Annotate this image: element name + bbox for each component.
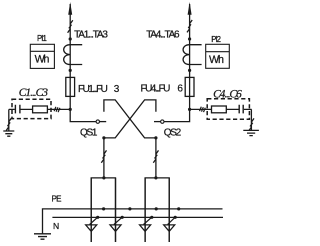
svg-text:QS2: QS2 <box>164 127 182 138</box>
svg-text:C4...C6: C4...C6 <box>213 88 242 100</box>
svg-text:FU1...FU: FU1...FU <box>78 84 108 95</box>
svg-text:3: 3 <box>114 84 120 95</box>
svg-text:N: N <box>53 221 59 231</box>
svg-text:QS1: QS1 <box>80 127 98 138</box>
svg-text:Wh: Wh <box>209 54 224 66</box>
svg-text:PI1: PI1 <box>37 34 47 43</box>
svg-text:FU4...FU: FU4...FU <box>141 83 171 94</box>
svg-text:TA4...TA6: TA4...TA6 <box>146 29 180 40</box>
svg-text:PE: PE <box>52 194 62 203</box>
svg-text:6: 6 <box>177 83 183 94</box>
svg-text:TA1...TA3: TA1...TA3 <box>74 30 108 41</box>
svg-text:Wh: Wh <box>35 54 50 66</box>
svg-text:PI2: PI2 <box>211 35 221 44</box>
svg-text:C1...C3: C1...C3 <box>19 87 48 99</box>
